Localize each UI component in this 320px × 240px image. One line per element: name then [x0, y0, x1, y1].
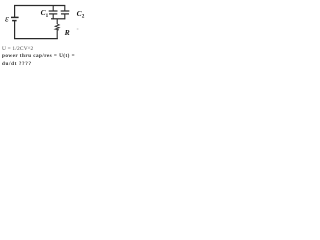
resistor R — [55, 24, 59, 30]
wire capacitor-bottom connector — [51, 18, 65, 20]
wire resistor branch lower — [56, 30, 58, 39]
equation line 2 — [2, 53, 75, 59]
stray speck — [77, 28, 79, 29]
wire bottom horizontal — [14, 38, 58, 40]
wire left vertical upper — [14, 5, 16, 17]
wire top horizontal — [14, 5, 65, 7]
battery EMF source — [11, 16, 19, 18]
wire left vertical lower — [14, 21, 16, 39]
svg-text:1: 1 — [46, 13, 49, 19]
capacitor C2 — [64, 6, 66, 11]
svg-text:R: R — [64, 28, 70, 37]
svg-text:2: 2 — [82, 13, 85, 19]
svg-text:ε: ε — [5, 14, 9, 25]
equation line 3 — [2, 61, 32, 67]
wire resistor branch upper — [56, 19, 58, 24]
equation line 1 — [2, 46, 33, 52]
capacitor C1 — [52, 6, 54, 11]
